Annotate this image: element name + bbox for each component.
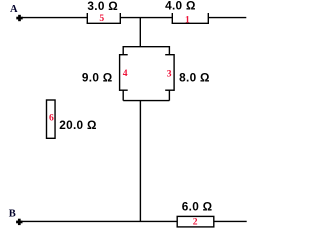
wire: node A to resistor R5 [22,17,87,19]
svg-text:8.0 Ω: 8.0 Ω [179,71,210,85]
wire: node B to resistor R2 [23,220,178,222]
svg-text:20.0 Ω: 20.0 Ω [59,118,97,132]
svg-text:1: 1 [185,14,190,25]
wire: top junction down to bridge top [139,18,141,47]
wire: bridge right upper stub [168,46,170,55]
svg-text:5: 5 [99,13,104,24]
svg-text:9.0 Ω: 9.0 Ω [82,71,113,85]
svg-text:3.0 Ω: 3.0 Ω [87,0,118,13]
wire: bridge left upper stub [122,46,124,55]
wire: bridge right lower stub [168,90,170,100]
resistor R4 body (9.0 ohm, vertical, box juts left) [119,54,127,91]
resistor R3 body (8.0 ohm, vertical, box juts right) [165,54,174,91]
wire: bridge bottom edge [123,100,169,102]
resistor R1 body (4.0 ohm, horizontal open-top box) [172,13,209,23]
resistor R2 body (6.0 ohm, closed rectangle) [177,216,214,227]
wire: bridge top edge [123,46,169,48]
svg-text:B: B [9,208,16,219]
svg-text:4: 4 [123,68,128,79]
resistor R5 body (3.0 ohm, horizontal open-top box) [87,13,121,23]
svg-text:4.0 Ω: 4.0 Ω [165,0,196,13]
wire: R5 to R1 (through top junction) [120,17,172,19]
svg-text:A: A [10,4,18,15]
resistor R6 body (20.0 ohm, floating vertical rectangle) [47,100,56,138]
node A terminal marker [16,15,22,21]
svg-text:3: 3 [167,68,172,79]
wire: bridge bottom down to bottom wire [139,101,141,222]
wire: R1 to open right end [208,17,246,19]
svg-text:6.0 Ω: 6.0 Ω [182,199,213,213]
svg-text:2: 2 [193,217,198,228]
node B terminal marker [16,219,22,225]
wire: R2 to open right end [214,220,247,222]
wire: bridge left lower stub [122,90,124,100]
svg-text:6: 6 [49,112,54,123]
